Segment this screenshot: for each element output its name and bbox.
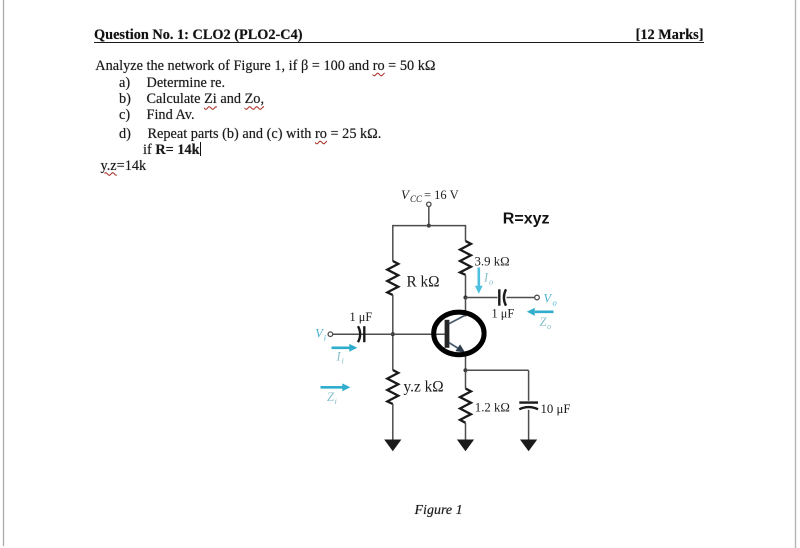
svg-text:i: i bbox=[324, 333, 327, 343]
wire y.z to ground bbox=[392, 404, 394, 440]
emitter wire bbox=[465, 352, 467, 371]
svg-text:3.9 kΩ: 3.9 kΩ bbox=[475, 255, 510, 269]
body text bbox=[95, 59, 435, 73]
terminal Vo bbox=[535, 295, 540, 300]
base bar bbox=[445, 320, 450, 348]
svg-text:1 μF: 1 μF bbox=[492, 306, 515, 320]
wire cap to Vo terminal bbox=[507, 297, 535, 299]
collector diagonal bbox=[449, 315, 466, 324]
wire 3.9k to collector node bbox=[465, 275, 467, 298]
collector wire into circle bbox=[465, 298, 467, 317]
base wire bbox=[333, 333, 445, 335]
page left border bbox=[3, 0, 4, 546]
wire right bypass branch down bbox=[528, 370, 530, 401]
node emitter junction bbox=[463, 368, 467, 372]
ground right bbox=[520, 440, 537, 452]
label Vo bbox=[544, 292, 557, 308]
arrow Zo bbox=[535, 310, 554, 313]
svg-text:V: V bbox=[544, 292, 553, 306]
arrow Io bbox=[477, 268, 480, 288]
wire Vcc down to rail bbox=[428, 207, 430, 226]
wire emitter node to right branch bbox=[466, 369, 529, 371]
node collector bbox=[463, 295, 467, 299]
label Ii bbox=[336, 350, 345, 366]
input terminal Vi bbox=[328, 332, 333, 337]
page right border bbox=[795, 0, 797, 548]
label Vcc = 16 V bbox=[401, 187, 459, 204]
label Vi bbox=[315, 327, 327, 343]
header: Question No. 1 + [12 Marks], underlined bbox=[94, 28, 704, 44]
capacitor 1uF input bbox=[358, 326, 360, 342]
Vcc terminal bbox=[427, 202, 431, 206]
resistor 3.9k bbox=[460, 241, 471, 275]
ground middle bbox=[457, 440, 474, 452]
wire right branch upper bbox=[465, 225, 467, 241]
svg-text:1 μF: 1 μF bbox=[350, 310, 373, 324]
wire top rail bbox=[393, 225, 466, 227]
svg-text:CC: CC bbox=[410, 194, 423, 204]
node base junction bbox=[391, 332, 395, 336]
ground left bbox=[384, 440, 401, 452]
svg-text:i: i bbox=[335, 396, 338, 406]
svg-text:10 μF: 10 μF bbox=[541, 402, 571, 416]
label Io bbox=[483, 271, 493, 287]
svg-text:1.2 kΩ: 1.2 kΩ bbox=[475, 400, 510, 414]
label Zo bbox=[540, 315, 552, 331]
resistor 1.2k bbox=[460, 389, 471, 423]
label Zi bbox=[327, 390, 338, 406]
resistor R bbox=[387, 261, 398, 295]
svg-text:R=xyz: R=xyz bbox=[503, 211, 550, 228]
Figure 1 caption bbox=[415, 504, 463, 518]
svg-text:y.z kΩ: y.z kΩ bbox=[404, 378, 444, 395]
wire collector node to output cap bbox=[466, 297, 498, 299]
wire left branch upper bbox=[392, 225, 394, 261]
svg-text:o: o bbox=[489, 277, 493, 287]
resistor y.z bbox=[387, 370, 398, 404]
annotation circle around transistor bbox=[434, 312, 484, 355]
svg-text:R kΩ: R kΩ bbox=[407, 274, 440, 291]
arrow Ii bbox=[332, 346, 351, 349]
svg-text:o: o bbox=[553, 298, 557, 308]
emitter arrowhead bbox=[455, 344, 465, 352]
wire 1.2k to ground bbox=[465, 423, 467, 440]
svg-text:o: o bbox=[547, 321, 551, 331]
wire R to base node bbox=[392, 295, 394, 370]
wire 1.2k upper lead bbox=[465, 370, 467, 388]
arrow Zi bbox=[321, 386, 344, 389]
svg-text:i: i bbox=[342, 356, 345, 366]
capacitor 10uF bbox=[519, 401, 538, 403]
svg-text:= 16 V: = 16 V bbox=[424, 188, 459, 202]
capacitor 1uF output bbox=[498, 289, 500, 305]
wire 10uF to ground bbox=[528, 410, 530, 440]
node Vcc rail junction bbox=[427, 224, 431, 228]
emitter diagonal bbox=[449, 343, 461, 350]
